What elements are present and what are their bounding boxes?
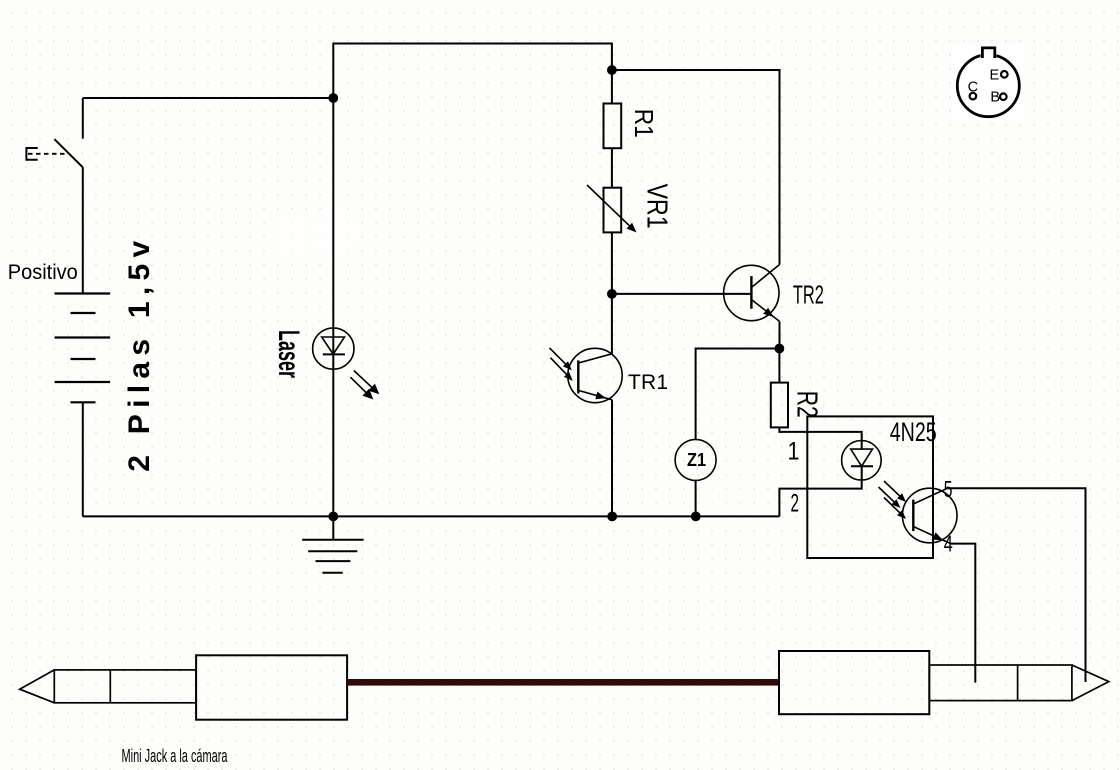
svg-text:2: 2 [791,490,800,518]
svg-text:1: 1 [788,438,800,466]
phototransistor TR1 collector [578,354,612,363]
TO-92 pin B [1000,93,1007,100]
cable [347,679,779,686]
laser diode D1 cathode bar [323,353,345,355]
laser emission arrow 1 [354,371,373,389]
svg-text:Laser: Laser [272,330,305,378]
potentiometer VR1 body [604,188,622,233]
node A junction dot [607,65,617,75]
wire: pin 4 to right jack sleeve [951,544,976,683]
battery BT1 plate long 2 [55,336,111,338]
svg-text:4N25: 4N25 [890,417,937,447]
switch S1 actuator dashed link [28,153,65,155]
svg-text:Positivo: Positivo [8,261,78,284]
buzzer Z1 circle [675,439,716,480]
TR1 light arrow 2 [550,358,568,376]
svg-text:VR1: VR1 [641,184,673,229]
laser diode D1 circle [313,328,354,369]
node E junction dot [691,512,701,522]
svg-text:E: E [990,67,1000,83]
node C junction dot [607,289,617,299]
left jack tip [20,670,55,703]
opto phototransistor emitter with arrow [913,527,950,544]
svg-text:TR2: TR2 [793,280,824,310]
node D junction dot [775,344,785,354]
wire: node C down to TR1 collector [611,294,613,354]
wire: ground bus [83,515,780,517]
opto phototransistor circle [902,488,957,543]
battery BT1 plate long 3 [55,381,111,383]
wire: R2 to opto LED anode (pin 1) [779,427,861,449]
ground bar 1 [302,539,363,541]
svg-text:R2: R2 [791,391,823,418]
transistor TR2 base bar [750,276,752,309]
opto phototransistor base bar [912,500,914,531]
wire: pin 5 to right jack tip [948,488,1086,682]
wire: switch lower lead to battery [82,167,84,293]
opto phototransistor collector [913,488,947,504]
left jack barrel divider [109,670,111,703]
wire: laser column [332,98,334,516]
ground bar 2 [308,550,357,552]
wire: switch upper lead [82,98,84,139]
wire: switch rail to laser column [83,97,333,99]
wire: node C to TR2 base [612,293,752,295]
ground bar 3 [316,560,351,562]
opto light arrow 3 [884,498,901,514]
switch S1 actuator bracket [26,148,37,160]
TO-92 pinout white backing [951,45,1023,121]
wire: node D to R2 [778,349,780,383]
TO-92 tab notch [981,51,997,57]
right jack barrel divider [1017,665,1019,701]
phototransistor TR1 emitter with arrow [578,390,612,399]
transistor TR2 collector [751,265,779,288]
transistor TR2 circle [724,265,779,320]
TR1 light arrow 1 [550,348,568,366]
wire: node A to R1 [611,70,613,104]
laser emission arrow 2 [350,377,367,393]
wire: battery negative lead down to ground bus [82,402,84,516]
switch S1 lever [54,139,82,167]
opto light arrow 1 [884,481,901,497]
wire: top rail from laser column to R1 column [333,44,612,99]
opto LED cathode bar [851,465,873,467]
wire: TR1 emitter to ground bus [611,400,613,517]
TO-92 package circle [957,55,1019,117]
optocoupler 4N25 box [807,416,933,558]
wire: VR1 to node C [611,232,613,294]
resistor R1 body [604,104,622,149]
battery BT1 plate short 1 [71,312,96,314]
right jack tip [1072,665,1109,701]
wire: Z1 to ground bus [695,480,697,516]
ground bar 4 [322,572,342,574]
transistor TR2 emitter with arrow [751,300,779,322]
TO-92 pin E [1001,71,1008,78]
phototransistor TR1 circle [568,348,622,402]
opto LED circle [842,441,882,481]
node ground junction dot [328,512,338,522]
wire: opto LED cathode to pin 2 to ground bus [779,466,861,516]
wire: rail from node A right then down to TR2 collector [612,70,780,265]
svg-text:Z1: Z1 [687,450,706,470]
svg-text:Mini Jack a la cámara: Mini Jack a la cámara [122,746,229,766]
faint watermark blob [277,208,746,515]
node B junction dot on laser column [328,93,338,103]
battery BT1 plate long 1 [55,292,111,294]
wire: R1 to VR1 [611,148,613,188]
svg-text:B: B [990,89,1000,105]
resistor R2 body [771,383,788,428]
left jack barrel [54,670,196,703]
svg-text:TR1: TR1 [628,371,668,394]
left jack body [196,655,347,719]
opto LED triangle [851,449,873,466]
battery BT1 plate short 2 [71,358,96,360]
opto light arrow 2 [879,487,896,503]
wire: TR2 emitter to node D [779,321,781,348]
svg-text:R1: R1 [629,109,659,138]
battery BT1 plate short 3 [71,401,96,403]
potentiometer VR1 arrow [587,185,630,226]
wire: node D to Z1 [696,349,780,440]
right jack barrel [929,665,1072,701]
TO-92 pin C [970,93,977,100]
ground lead [332,516,334,539]
laser diode D1 triangle [322,337,345,354]
node F junction dot (TR1 emitter on bus) [607,512,617,522]
phototransistor TR1 base bar [577,360,579,393]
right jack body [779,651,929,714]
